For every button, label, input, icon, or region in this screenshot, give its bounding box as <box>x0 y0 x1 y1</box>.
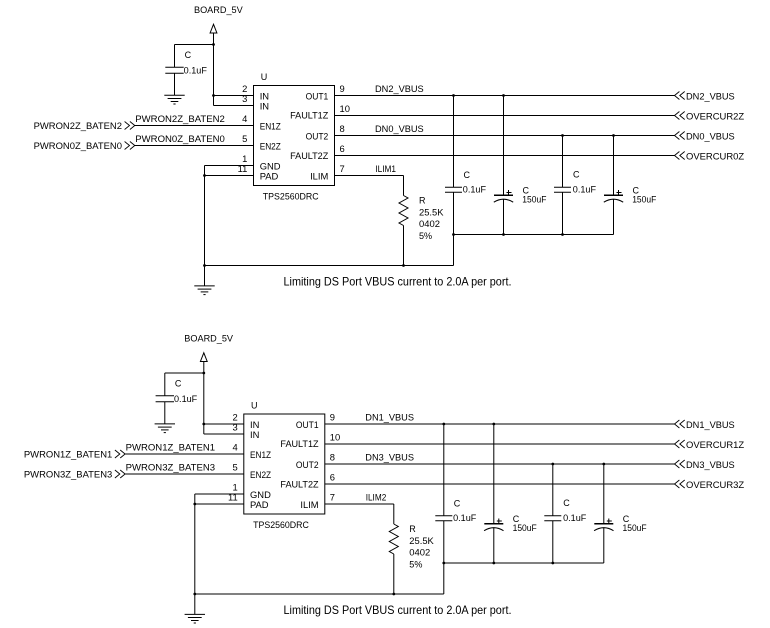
capacitor C 0.1uF (bank 3) <box>562 136 564 188</box>
svg-text:0402: 0402 <box>409 548 430 558</box>
svg-text:R: R <box>419 195 426 205</box>
junction gnd stem / bus <box>203 264 206 267</box>
capacitor C 0.1uF (bank 1) <box>453 96 455 188</box>
svg-text:PWRON2Z_BATEN2: PWRON2Z_BATEN2 <box>135 113 225 124</box>
svg-text:DN0_VBUS: DN0_VBUS <box>375 123 424 134</box>
wire pin 2 IN <box>204 423 244 425</box>
junction resistor / bus <box>402 264 405 267</box>
wire pin 1 GND <box>195 493 244 495</box>
svg-text:PWRON3Z_BATEN3: PWRON3Z_BATEN3 <box>24 468 112 479</box>
svg-text:0.1uF: 0.1uF <box>563 513 587 523</box>
capacitor C 0.1uF (bank 3) <box>552 464 554 516</box>
wire net DN0_VBUS (pin 8) <box>335 135 675 137</box>
wire gnd stem <box>194 494 196 614</box>
capacitor C 0.1uF (bank 1) <box>443 424 445 516</box>
svg-text:ILIM: ILIM <box>300 499 318 510</box>
svg-text:10: 10 <box>340 103 350 114</box>
node DN1_VBUS (off-page connector) <box>675 420 680 428</box>
resistor R 25.5K (0402 5%) <box>399 196 408 226</box>
svg-text:IN: IN <box>250 429 259 440</box>
wire to bypass cap <box>175 44 214 46</box>
svg-text:150uF: 150uF <box>522 195 547 205</box>
svg-text:0402: 0402 <box>419 219 440 229</box>
svg-text:DN2_VBUS: DN2_VBUS <box>686 91 735 102</box>
junction v1 / bank bus <box>452 233 455 236</box>
svg-text:10: 10 <box>330 432 340 443</box>
svg-text:Limiting DS Port VBUS current: Limiting DS Port VBUS current to 2.0A pe… <box>284 274 512 288</box>
wire net PWRON2Z_BATEN2 <box>134 125 253 127</box>
svg-text:FAULT1Z: FAULT1Z <box>290 110 328 121</box>
plus sign (bank 2) <box>497 520 502 522</box>
svg-text:5: 5 <box>242 133 247 144</box>
svg-text:9: 9 <box>330 412 335 423</box>
svg-text:0.1uF: 0.1uF <box>184 66 208 76</box>
svg-text:25.5K: 25.5K <box>419 207 444 217</box>
svg-text:0.1uF: 0.1uF <box>573 185 597 195</box>
junction pin1/pin11 <box>203 174 206 177</box>
svg-text:0.1uF: 0.1uF <box>174 394 198 404</box>
node OVERCUR3Z (off-page connector) <box>675 480 680 488</box>
svg-text:8: 8 <box>330 452 335 463</box>
wire main bottom bus <box>205 265 454 267</box>
svg-text:11: 11 <box>228 492 238 503</box>
junction power/cap tee <box>202 372 205 375</box>
wire net OVERCUR0Z (pin 6) <box>335 155 675 157</box>
capacitor C 150uF polarized (bank 2) <box>493 424 495 524</box>
wire net DN2_VBUS (pin 9) <box>335 95 675 97</box>
svg-text:IN: IN <box>260 100 269 111</box>
svg-text:DN0_VBUS: DN0_VBUS <box>686 131 735 142</box>
svg-text:4: 4 <box>242 113 247 124</box>
ground bypass <box>164 95 184 104</box>
capacitor C 150uF polarized (bank 4) <box>613 136 615 196</box>
wire power stem <box>213 33 215 106</box>
wire net DN3_VBUS (pin 8) <box>325 463 675 465</box>
svg-text:PWRON1Z_BATEN1: PWRON1Z_BATEN1 <box>126 442 216 453</box>
wire resistor bottom lead <box>393 554 395 594</box>
wire net DN1_VBUS (pin 9) <box>325 423 675 425</box>
svg-text:DN3_VBUS: DN3_VBUS <box>686 459 735 470</box>
junction v1 / DN1_VBUS <box>442 423 445 426</box>
svg-text:ILIM2: ILIM2 <box>366 492 387 503</box>
svg-text:OVERCUR0Z: OVERCUR0Z <box>686 151 744 162</box>
ground main <box>194 286 214 295</box>
svg-text:BOARD_5V: BOARD_5V <box>194 4 243 15</box>
junction gnd stem / bus <box>193 593 196 596</box>
svg-text:R: R <box>409 524 416 534</box>
wire pin 11 PAD <box>205 175 254 177</box>
wire resistor top lead <box>403 176 405 196</box>
svg-text:DN1_VBUS: DN1_VBUS <box>686 419 735 430</box>
svg-text:OUT1: OUT1 <box>306 90 329 101</box>
node DN2_VBUS (off-page connector) <box>675 92 680 100</box>
svg-text:U: U <box>251 401 258 411</box>
svg-text:OVERCUR3Z: OVERCUR3Z <box>686 479 744 490</box>
svg-text:5%: 5% <box>409 560 422 570</box>
junction v2 / bank bus <box>502 233 505 236</box>
plus sign (bank 4) <box>607 520 612 522</box>
svg-text:4: 4 <box>232 442 237 453</box>
svg-text:150uF: 150uF <box>623 523 648 533</box>
svg-text:TPS2560DRC: TPS2560DRC <box>263 191 319 201</box>
svg-text:OUT1: OUT1 <box>296 419 319 430</box>
junction v3 / bank bus <box>561 233 564 236</box>
wire capacitor bank bus <box>444 562 604 564</box>
svg-text:PAD: PAD <box>260 170 279 181</box>
wire pin 2 IN <box>214 95 254 97</box>
junction v2 / DN2_VBUS <box>502 94 505 97</box>
power symbol BOARD_5V <box>210 24 217 33</box>
wire net PWRON0Z_BATEN0 <box>134 145 253 147</box>
plus sign (bank 2) <box>507 192 512 194</box>
wire pin 3 IN <box>214 105 254 107</box>
junction v1 / DN2_VBUS <box>452 94 455 97</box>
junction v4 / DN0_VBUS <box>612 134 615 137</box>
wire main bottom bus <box>195 593 444 595</box>
junction power/pin2 tee <box>202 423 205 426</box>
wire net OVERCUR1Z (pin 10) <box>325 443 675 445</box>
svg-text:ILIM: ILIM <box>310 170 328 181</box>
op-amp U1: IC U TPS2560DRC <box>254 86 335 186</box>
svg-text:OUT2: OUT2 <box>306 130 329 141</box>
svg-text:0.1uF: 0.1uF <box>463 185 487 195</box>
svg-text:C: C <box>563 498 570 508</box>
svg-text:TPS2560DRC: TPS2560DRC <box>253 520 309 530</box>
svg-text:5%: 5% <box>419 231 432 241</box>
capacitor C bypass 0.1uF <box>174 45 176 68</box>
resistor R 25.5K (0402 5%) <box>389 524 398 554</box>
svg-text:BOARD_5V: BOARD_5V <box>184 332 233 343</box>
svg-text:7: 7 <box>330 492 335 503</box>
junction resistor / bus <box>392 593 395 596</box>
svg-text:EN1Z: EN1Z <box>250 449 271 460</box>
svg-text:150uF: 150uF <box>632 195 657 205</box>
svg-text:9: 9 <box>340 83 345 94</box>
wire net PWRON1Z_BATEN1 <box>125 453 244 455</box>
junction v3 / DN3_VBUS <box>551 463 554 466</box>
svg-text:OUT2: OUT2 <box>296 459 319 470</box>
wire net ILIM1 (pin 7) <box>335 175 404 177</box>
junction v2 / DN1_VBUS <box>492 423 495 426</box>
wire gnd stem <box>204 166 206 286</box>
svg-text:150uF: 150uF <box>513 523 538 533</box>
svg-text:DN3_VBUS: DN3_VBUS <box>365 452 414 463</box>
wire pin 11 PAD <box>195 503 244 505</box>
wire pin 3 IN <box>204 433 244 435</box>
svg-text:11: 11 <box>238 163 248 174</box>
node OVERCUR2Z (off-page connector) <box>675 112 680 120</box>
svg-text:PWRON1Z_BATEN1: PWRON1Z_BATEN1 <box>24 448 112 459</box>
svg-text:DN1_VBUS: DN1_VBUS <box>365 412 414 423</box>
node OVERCUR1Z (off-page connector) <box>675 440 680 448</box>
svg-text:8: 8 <box>340 123 345 134</box>
op-amp U1: IC U TPS2560DRC <box>244 414 325 514</box>
junction v3 / DN0_VBUS <box>561 134 564 137</box>
svg-text:ILIM1: ILIM1 <box>375 163 396 174</box>
svg-text:FAULT1Z: FAULT1Z <box>280 438 318 449</box>
svg-text:C: C <box>573 170 580 180</box>
svg-text:FAULT2Z: FAULT2Z <box>280 479 318 490</box>
node DN3_VBUS (off-page connector) <box>675 460 680 468</box>
wire capacitor bank bus <box>454 234 614 236</box>
svg-text:OVERCUR2Z: OVERCUR2Z <box>686 111 744 122</box>
svg-text:PWRON0Z_BATEN0: PWRON0Z_BATEN0 <box>135 133 225 144</box>
svg-text:PAD: PAD <box>250 499 269 510</box>
svg-text:5: 5 <box>232 462 237 473</box>
svg-text:EN1Z: EN1Z <box>260 120 281 131</box>
junction v4 / DN3_VBUS <box>602 463 605 466</box>
junction v2 / bank bus <box>492 562 495 565</box>
svg-text:C: C <box>454 499 461 509</box>
wire net OVERCUR2Z (pin 10) <box>335 115 675 117</box>
svg-text:0.1uF: 0.1uF <box>453 513 477 523</box>
wire resistor top lead <box>393 504 395 524</box>
svg-text:6: 6 <box>340 143 345 154</box>
capacitor C bypass 0.1uF <box>164 373 166 396</box>
svg-text:25.5K: 25.5K <box>409 536 434 546</box>
svg-text:PWRON3Z_BATEN3: PWRON3Z_BATEN3 <box>126 462 216 473</box>
ground main <box>185 614 205 623</box>
node OVERCUR0Z (off-page connector) <box>675 152 680 160</box>
wire pin 1 GND <box>205 165 254 167</box>
wire net OVERCUR3Z (pin 6) <box>325 483 675 485</box>
wire to bypass cap <box>165 372 204 374</box>
svg-text:U: U <box>261 72 268 82</box>
capacitor C 150uF polarized (bank 4) <box>603 464 605 524</box>
wire power stem <box>203 362 205 435</box>
svg-text:C: C <box>175 379 182 389</box>
svg-text:DN2_VBUS: DN2_VBUS <box>375 83 424 94</box>
svg-text:Limiting DS Port VBUS current: Limiting DS Port VBUS current to 2.0A pe… <box>284 603 512 617</box>
node DN0_VBUS (off-page connector) <box>675 132 680 140</box>
svg-text:EN2Z: EN2Z <box>260 140 281 151</box>
svg-text:C: C <box>185 50 192 60</box>
wire resistor bottom lead <box>403 226 405 266</box>
svg-text:EN2Z: EN2Z <box>250 469 271 480</box>
plus sign (bank 4) <box>617 192 622 194</box>
svg-text:PWRON0Z_BATEN0: PWRON0Z_BATEN0 <box>34 140 122 151</box>
junction v3 / bank bus <box>551 562 554 565</box>
ground bypass <box>155 424 175 433</box>
svg-text:7: 7 <box>340 163 345 174</box>
wire net ILIM2 (pin 7) <box>325 503 394 505</box>
svg-text:3: 3 <box>242 93 247 104</box>
svg-text:PWRON2Z_BATEN2: PWRON2Z_BATEN2 <box>34 120 122 131</box>
svg-text:6: 6 <box>330 472 335 483</box>
svg-text:C: C <box>464 170 471 180</box>
junction power/cap tee <box>212 43 215 46</box>
junction v1 / bank bus <box>442 562 445 565</box>
capacitor C 150uF polarized (bank 2) <box>503 96 505 196</box>
wire net PWRON3Z_BATEN3 <box>125 473 244 475</box>
svg-text:3: 3 <box>232 422 237 433</box>
junction power/pin2 tee <box>212 94 215 97</box>
junction pin1/pin11 <box>193 503 196 506</box>
power symbol BOARD_5V <box>200 353 207 362</box>
svg-text:FAULT2Z: FAULT2Z <box>290 150 328 161</box>
svg-text:OVERCUR1Z: OVERCUR1Z <box>686 439 744 450</box>
